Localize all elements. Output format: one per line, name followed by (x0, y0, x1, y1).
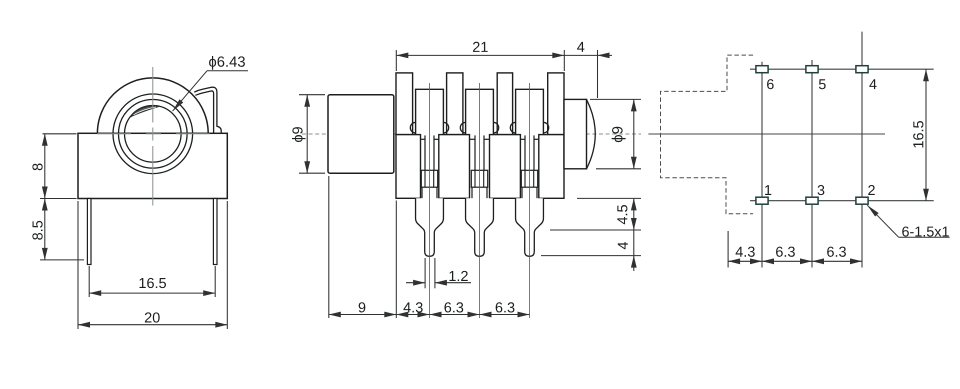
pin 1 knurl block (421, 170, 437, 187)
front view left pin (87, 199, 91, 265)
rear cap dome bulge (587, 99, 596, 168)
leader line for hole diameter (173, 71, 207, 111)
pad number 2 (868, 185, 875, 195)
pad 1 (756, 197, 768, 204)
spring terminal hook at top right (194, 87, 221, 133)
solder pin 1 (416, 198, 444, 256)
pin 2 knurl block (471, 170, 487, 187)
extension line dashed-step (for 4.3) (727, 231, 729, 268)
housing rib 2 (447, 73, 463, 135)
extension line slab bottom (for 4.5) (577, 197, 641, 199)
housing rib 1 (396, 73, 413, 135)
pin centerline 2 (479, 83, 481, 318)
pad row line bottom (750, 200, 934, 202)
label 4.5 (617, 205, 627, 224)
PCB layout dashed body outline (661, 55, 754, 214)
label 16.5 (139, 278, 166, 288)
label dia 9 left (292, 127, 306, 142)
dimension line 21 / 4 (396, 54, 612, 56)
terminal 3 bottom curls (510, 122, 515, 133)
solder pin 2 (466, 198, 494, 256)
housing lower slab 4 (539, 135, 564, 199)
pad number 4 (869, 79, 876, 89)
extension line for dim 4 (rear) (597, 50, 599, 98)
front view horizontal centerline (97, 133, 131, 135)
pad 2 (856, 197, 868, 204)
label dia 9 right (612, 127, 626, 142)
label 6-1.5x1 (902, 226, 949, 236)
extension line barrel left (for 9) (328, 176, 330, 318)
label 16.5 (layout) (913, 121, 923, 148)
pad number 1 (765, 185, 771, 195)
dimension line 4.3/6.3/6.3 (layout) (728, 260, 862, 262)
extension lines for dim 20 (body width) (77, 201, 79, 329)
housing lower slab 2 (439, 135, 470, 199)
pin 2 root between slabs (474, 135, 476, 170)
inner circle (hole dia 6.43) (125, 106, 182, 163)
label 6.3 (layout first) (776, 247, 795, 257)
terminal 2 bottom curls (460, 122, 465, 133)
outer circle (113, 94, 193, 174)
front view body rectangle (78, 133, 227, 198)
extension line slab1 left (for 9/4.3) (395, 201, 397, 319)
dimension line 8.5 (44, 199, 46, 260)
dimension line 16.5 (89, 292, 215, 294)
label 6.3 (first) (444, 302, 463, 312)
extension line bottom for dim 8.5 (40, 259, 84, 261)
pin 1 root between slabs (424, 135, 426, 170)
dimension line 8 (44, 134, 46, 199)
extension lines for dim 16.5 (pin spacing) (88, 266, 90, 297)
pin 3 knurl block (521, 170, 537, 187)
extension line mid (body bottom) (40, 198, 77, 200)
extension line chamfer (for 4.5/4) (550, 229, 641, 231)
pad row line top (750, 68, 934, 70)
side view barrel (sleeve cylinder) (328, 95, 394, 174)
PCB layout horizontal centerline (648, 133, 885, 135)
pad 6 (756, 66, 768, 73)
pad column line 2 (811, 60, 813, 268)
pad column line 3 (861, 32, 863, 268)
front view vertical centerline (152, 67, 154, 123)
dimension line dia 9 right (633, 99, 635, 168)
label 20 (145, 312, 160, 322)
dimension line dia 9 left (306, 95, 308, 174)
terminal 1 upper blade (416, 89, 444, 134)
label 8 (32, 163, 42, 170)
solder pin 3 (516, 198, 544, 256)
housing lower slab 1 (396, 135, 421, 199)
side view horizontal centerline (302, 133, 641, 135)
dimension line 16.5 (pad row spacing) (925, 69, 927, 201)
pin 3 root between slabs (524, 135, 526, 170)
extension lines for right dia 9 (590, 98, 641, 100)
dimension line 20 (78, 324, 227, 326)
extension lines for dim 1.2 (pin width) (424, 258, 426, 288)
pad number 3 (818, 185, 825, 195)
dimension line 4.5 / 4 (633, 198, 635, 271)
extension line top for dim 8 (43, 133, 77, 135)
extension line pin tip (for 4) (541, 255, 641, 257)
pad 4 (856, 66, 868, 73)
pin 3 root lower (521, 187, 523, 198)
label 6.3 (second) (496, 302, 515, 312)
label 21 (473, 42, 488, 52)
pad number 5 (819, 79, 826, 89)
label 4 (right) (618, 242, 628, 249)
middle circle (119, 100, 188, 169)
pad 3 (806, 197, 818, 204)
label 6.3 (layout second) (827, 247, 846, 257)
housing lower slab 3 (490, 135, 521, 199)
leader line for pad size 6-1.5x1 (867, 205, 898, 237)
extension lines for left dia 9 (299, 94, 325, 96)
front view right pin (213, 199, 217, 265)
label 8.5 (32, 221, 42, 240)
pin 2 root lower (471, 187, 473, 198)
dimension line 9/4.3/6.3/6.3 (329, 314, 530, 316)
label 9 (359, 302, 366, 312)
label 4.3 (403, 302, 422, 312)
rear cap body (564, 99, 587, 168)
label 4 (top) (577, 42, 584, 52)
pad 5 (806, 66, 818, 73)
front view dome (barrel silhouette) (97, 78, 208, 133)
housing rib 3 (497, 73, 512, 135)
terminal 2 upper blade (466, 89, 494, 134)
pin centerline 3 (529, 83, 531, 318)
housing rib 4 (548, 73, 564, 135)
pad number 6 (767, 79, 774, 89)
pin centerline 1 (429, 83, 431, 318)
contact spring sliver (hatched) seen through hole (131, 106, 159, 117)
label 4.3 (layout) (736, 247, 755, 257)
extension lines for dim 21 (395, 50, 397, 71)
terminal 3 upper blade (516, 89, 544, 134)
pin 1 root lower (421, 187, 423, 198)
label phi6.43 (209, 56, 245, 70)
label 1.2 (449, 271, 467, 281)
pad column line 1 (761, 62, 763, 268)
dimension line 1.2 (406, 282, 425, 284)
terminal 1 bottom curls (410, 122, 415, 133)
